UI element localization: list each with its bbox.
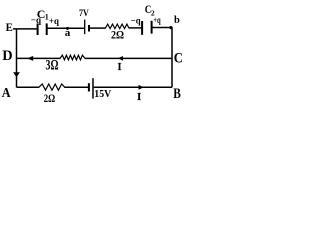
label -q (C1 left) xyxy=(31,16,42,26)
svg-text:D: D xyxy=(2,48,13,64)
node b xyxy=(169,15,180,29)
node B xyxy=(173,86,181,102)
current arrow I middle xyxy=(118,56,124,73)
label 7V xyxy=(79,9,89,19)
wire E to C1 xyxy=(13,28,37,30)
wire C1 to battery 7V xyxy=(48,27,85,29)
svg-text:7V: 7V xyxy=(79,9,89,19)
resistor 2ohm bottom xyxy=(39,84,65,90)
node A xyxy=(2,85,11,100)
label C1 xyxy=(37,7,49,22)
label +q (C1 right) xyxy=(49,17,60,27)
resistor R top 2ohm xyxy=(105,24,129,29)
battery 7V xyxy=(85,20,89,35)
node a xyxy=(65,27,71,39)
wire battery to B xyxy=(94,86,172,88)
svg-text:A: A xyxy=(2,85,11,100)
wire bottom left segment (A to 2ohm) xyxy=(17,86,40,88)
svg-text:E: E xyxy=(6,20,13,34)
label 3ohm xyxy=(46,58,59,74)
node E xyxy=(6,20,13,34)
current arrow toward D xyxy=(27,56,33,61)
capacitor C1 xyxy=(38,23,47,35)
wire C2 to node b xyxy=(152,27,172,29)
svg-text:I: I xyxy=(137,91,141,103)
svg-text:2Ω: 2Ω xyxy=(44,91,56,105)
svg-text:3Ω: 3Ω xyxy=(46,58,59,74)
label 15V xyxy=(94,88,111,100)
svg-text:+q: +q xyxy=(153,15,160,25)
wire left vertical (E to D to A) xyxy=(16,29,18,87)
svg-text:2Ω: 2Ω xyxy=(111,30,124,42)
label C2 xyxy=(145,2,155,17)
svg-text:−q: −q xyxy=(131,17,141,27)
node D xyxy=(2,48,13,64)
label -q (C2 left) xyxy=(131,17,141,27)
svg-text:B: B xyxy=(173,86,181,102)
wire right vertical (b to C to B) xyxy=(171,28,173,88)
battery 15V xyxy=(89,78,93,98)
svg-text:I: I xyxy=(118,62,122,73)
label 2ohm bottom xyxy=(44,91,56,105)
svg-text:b: b xyxy=(174,15,180,26)
label +q (C2 right) xyxy=(153,15,160,25)
svg-text:a: a xyxy=(65,27,71,39)
wire 2ohm to battery 15V xyxy=(64,86,88,88)
current arrow I bottom xyxy=(137,85,144,103)
wire middle right segment (3ohm to C) xyxy=(85,57,172,59)
node C xyxy=(174,50,183,66)
current arrow down on left wire xyxy=(13,72,20,77)
resistor 3ohm xyxy=(60,55,85,60)
svg-text:15V: 15V xyxy=(94,88,111,100)
wire battery to resistor 2ohm top xyxy=(90,27,106,29)
label 2ohm top xyxy=(111,30,124,42)
wire middle left segment (D to 3ohm) xyxy=(17,57,61,59)
capacitor C2 xyxy=(142,21,152,35)
svg-text:−q: −q xyxy=(31,16,42,26)
wire resistor to C2 xyxy=(129,27,142,29)
svg-text:C: C xyxy=(174,50,183,66)
svg-text:+q: +q xyxy=(49,17,60,27)
